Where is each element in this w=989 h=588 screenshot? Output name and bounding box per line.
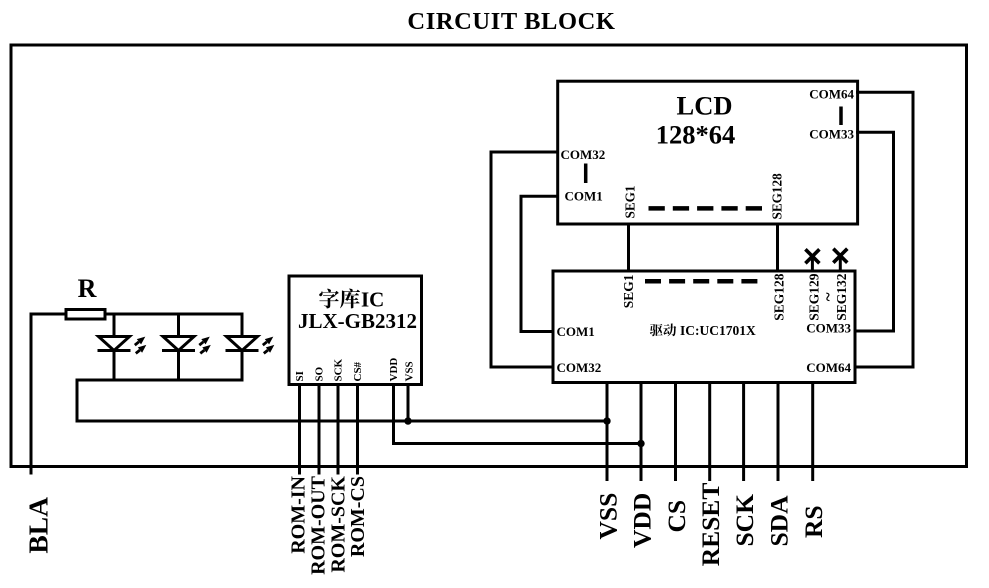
svg-text:SEG1: SEG1 (621, 274, 636, 308)
wire CS# to ROM-CS (356, 385, 359, 475)
svg-text:CS#: CS# (352, 361, 364, 381)
wire SDA (777, 383, 780, 481)
wire RESET (708, 383, 711, 481)
svg-text:VDD: VDD (628, 493, 657, 548)
svg-text:VSS: VSS (594, 493, 623, 540)
svg-text:LCD: LCD (677, 91, 733, 121)
LCD tick COM64-COM33 (839, 107, 843, 126)
wire VSS pin stub (407, 385, 410, 422)
svg-text:ROM-CS: ROM-CS (347, 476, 369, 557)
svg-text:COM33: COM33 (806, 321, 851, 336)
wire VDD (640, 383, 643, 481)
svg-text:COM64: COM64 (806, 360, 851, 375)
svg-text:IC:UC1701X: IC:UC1701X (680, 323, 756, 338)
wire COM32 link (491, 152, 559, 367)
svg-text:SEG1: SEG1 (623, 186, 638, 219)
svg-text:COM1: COM1 (565, 189, 603, 204)
wire COM64 link (854, 92, 913, 367)
X mark SEG132 (833, 249, 847, 263)
wire COM1 link (521, 196, 559, 331)
svg-text:ROM-OUT: ROM-OUT (308, 475, 330, 575)
LCD tick COM32-COM1 (584, 164, 588, 184)
wire VSS (606, 383, 609, 481)
svg-text:IC: IC (361, 288, 384, 312)
svg-text:SEG128: SEG128 (770, 173, 785, 220)
wire SCK to ROM-SCK (337, 385, 340, 475)
resistor R (66, 310, 105, 320)
X mark SEG129 (805, 249, 819, 263)
font ROM IC U2 box (289, 276, 422, 385)
svg-text:RS: RS (799, 505, 828, 538)
wire COM33 link (854, 132, 894, 331)
wire RS (811, 383, 814, 481)
junction dot VSS (603, 417, 610, 424)
wire SCK (742, 383, 745, 481)
wire CS (674, 383, 677, 481)
svg-text:R: R (78, 274, 97, 303)
svg-text:COM64: COM64 (809, 87, 854, 102)
svg-text:COM33: COM33 (809, 126, 854, 141)
svg-text:COM1: COM1 (557, 324, 595, 339)
LCD U3 box (558, 81, 858, 224)
wire SEG1 bus (627, 224, 630, 271)
svg-text:VDD: VDD (388, 358, 400, 382)
svg-text:COM32: COM32 (561, 147, 606, 162)
svg-text:SDA: SDA (765, 495, 794, 547)
wire SEG128 bus (776, 224, 779, 271)
label 字库IC (319, 288, 384, 312)
LCD dashed seg line (649, 206, 763, 211)
svg-text:JLX-GB2312: JLX-GB2312 (298, 309, 417, 333)
svg-text:ROM-IN: ROM-IN (288, 475, 310, 553)
svg-text:CIRCUIT BLOCK: CIRCUIT BLOCK (407, 8, 615, 35)
LED D3 (226, 314, 275, 380)
LED D2 (162, 314, 211, 380)
svg-text:COM32: COM32 (557, 360, 602, 375)
wire SI to ROM-IN (298, 385, 301, 475)
driver IC U1 box (553, 271, 855, 383)
wire anode rail (106, 313, 244, 316)
wire SEG132 stub (839, 256, 842, 272)
svg-text:BLA: BLA (23, 497, 54, 554)
svg-text:SEG128: SEG128 (772, 273, 787, 321)
driver label (650, 323, 756, 338)
svg-text:SCK: SCK (333, 358, 345, 381)
svg-text:CS: CS (662, 500, 691, 533)
junction dot VDD (637, 440, 644, 447)
wire SO to ROM-OUT (318, 385, 321, 475)
svg-text:SO: SO (314, 366, 326, 381)
driver dashed seg line (645, 279, 758, 284)
wire VDD net (394, 385, 642, 444)
wire SEG129 stub (811, 256, 814, 271)
svg-text:SI: SI (294, 371, 306, 381)
svg-text:SEG132: SEG132 (834, 273, 849, 321)
svg-text:RESET: RESET (696, 483, 725, 567)
LED D1 (98, 314, 147, 380)
junction dot VSS/ROM (404, 417, 411, 424)
outer border box (11, 45, 967, 467)
wire cathode rail / VSS net (77, 380, 607, 421)
svg-text:VSS: VSS (404, 361, 416, 381)
wire BLA to resistor (31, 314, 65, 475)
svg-text:SCK: SCK (730, 494, 759, 547)
svg-text:128*64: 128*64 (656, 120, 736, 150)
